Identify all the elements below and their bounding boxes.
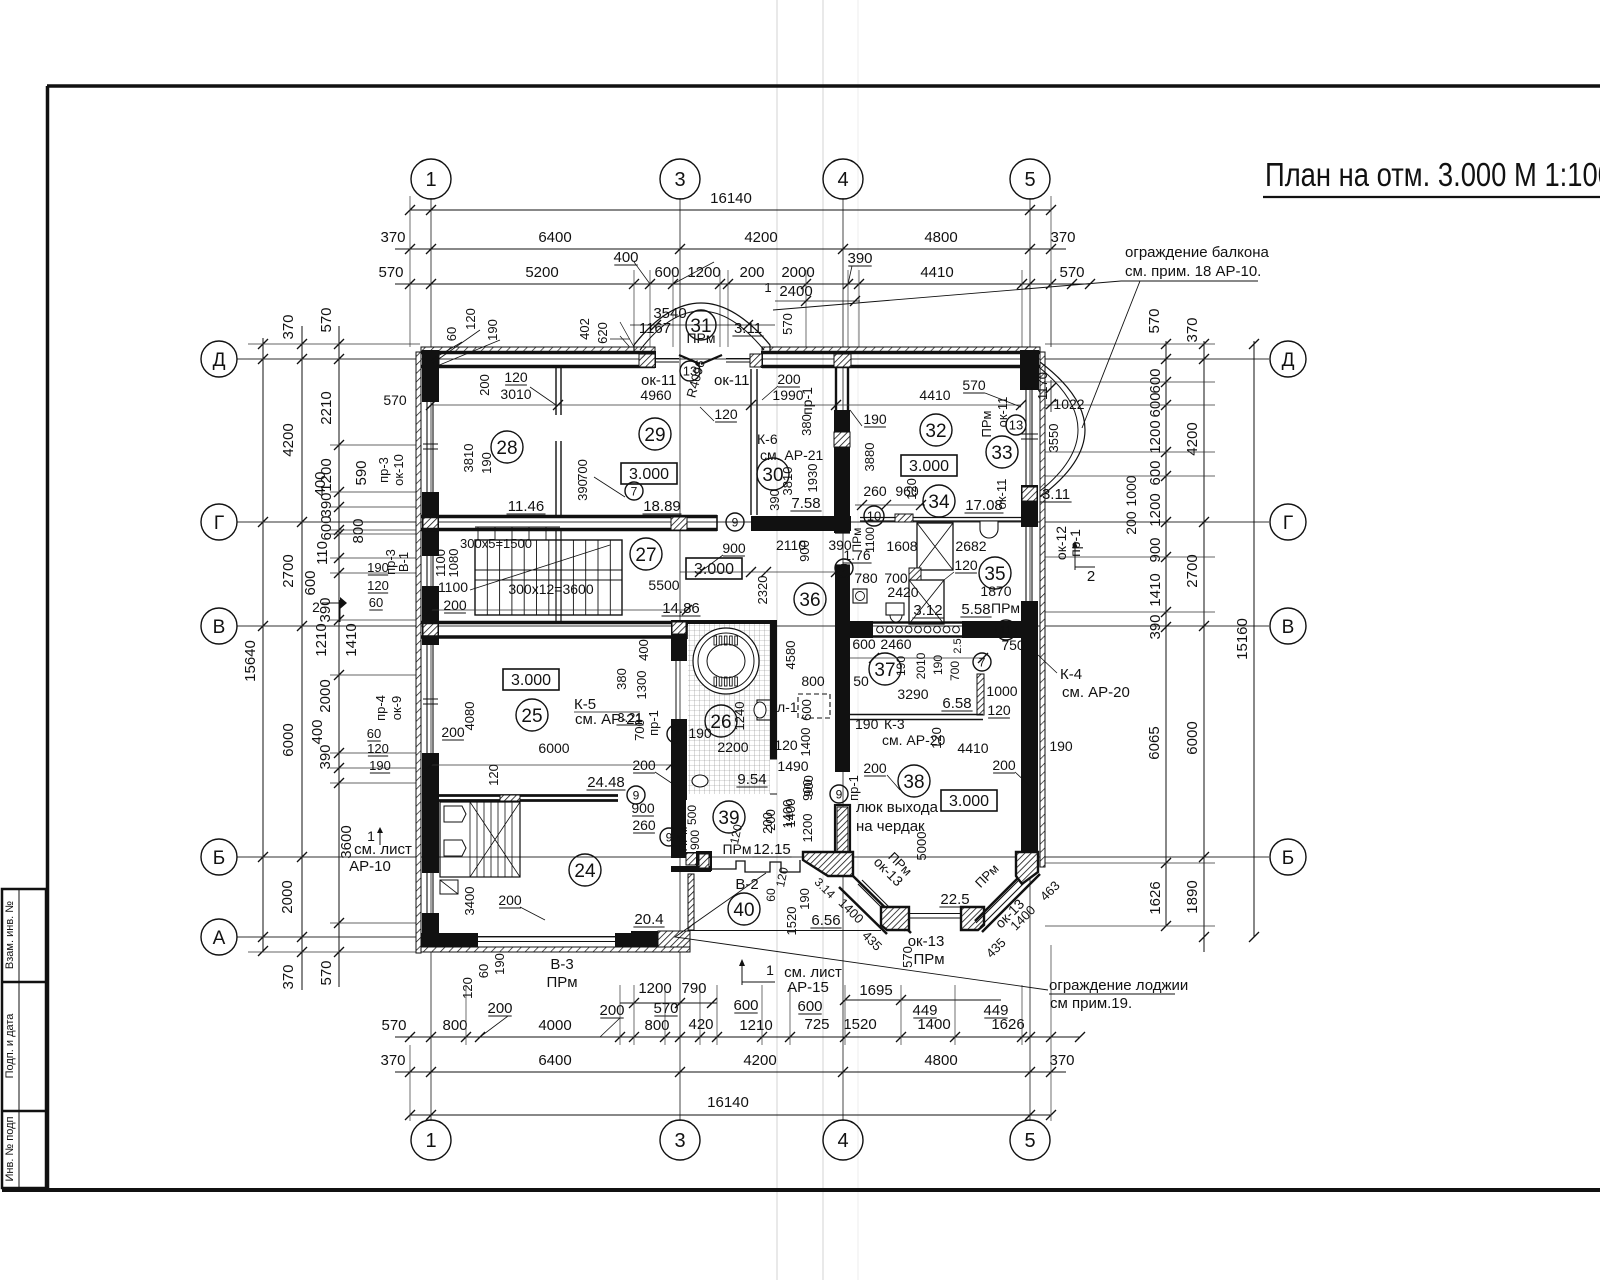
wall 36/37 axis4 [835, 565, 850, 772]
dashed hatch l-1 [798, 694, 830, 718]
svg-text:2.5: 2.5 [952, 638, 964, 653]
svg-text:110: 110 [314, 541, 331, 565]
door jamb 39/40 [697, 852, 711, 870]
svg-text:АР-15: АР-15 [787, 979, 829, 996]
svg-text:1490: 1490 [777, 758, 808, 774]
svg-text:3880: 3880 [862, 443, 877, 472]
pier at D/1 corner [423, 354, 439, 367]
svg-text:33: 33 [991, 443, 1012, 464]
svg-text:2200: 2200 [717, 739, 748, 755]
axis bubble 3 bottom [660, 1120, 700, 1160]
svg-text:5500: 5500 [648, 577, 679, 593]
svg-text:Б: Б [1282, 848, 1294, 869]
svg-text:5: 5 [1024, 169, 1035, 191]
svg-text:Д: Д [1282, 350, 1295, 371]
vestibule 31 balcony arc [634, 303, 770, 345]
svg-text:Г: Г [214, 513, 224, 534]
elev room 38 [941, 790, 997, 811]
svg-text:люк выхода: люк выхода [856, 799, 939, 816]
axis bubble D right [1270, 341, 1306, 377]
corner A wall to loggia [631, 931, 658, 947]
svg-text:1: 1 [764, 280, 771, 295]
left extension lines [248, 343, 420, 345]
room 32 [920, 414, 952, 446]
elev room 25 [503, 669, 559, 690]
room 37 inner partition [977, 674, 984, 715]
svg-text:ПРм: ПРм [546, 974, 577, 991]
axis line 5 [1029, 198, 1031, 1121]
svg-text:190: 190 [367, 560, 389, 575]
wall G mid part [751, 516, 851, 531]
corridor thin wall right of G [860, 517, 1021, 519]
svg-text:800: 800 [801, 673, 825, 689]
svg-text:50: 50 [853, 673, 869, 689]
svg-text:14.86: 14.86 [662, 600, 700, 617]
svg-text:700: 700 [575, 459, 590, 481]
room 30 [757, 458, 789, 490]
room 26 [705, 705, 737, 737]
svg-text:4: 4 [837, 1130, 848, 1152]
wall 26/36 [770, 624, 777, 759]
svg-text:4200: 4200 [744, 229, 777, 246]
svg-text:см. лист: см. лист [354, 841, 412, 858]
room 25 [516, 699, 548, 731]
svg-text:Инв. № подп: Инв. № подп [4, 1116, 16, 1181]
svg-text:6.56: 6.56 [811, 912, 840, 929]
left wall solid below ok-9 [422, 753, 439, 873]
A wall insulation hatch [421, 947, 690, 952]
svg-text:1100: 1100 [438, 579, 468, 595]
svg-text:5000: 5000 [914, 832, 929, 861]
svg-text:1200: 1200 [638, 980, 671, 997]
svg-text:200: 200 [863, 760, 887, 776]
svg-text:120: 120 [929, 727, 944, 749]
room 33 [986, 436, 1018, 468]
svg-text:15160: 15160 [1234, 618, 1251, 660]
svg-text:10: 10 [867, 509, 881, 524]
svg-text:3810: 3810 [461, 444, 476, 473]
mark 7 x982 [973, 653, 991, 671]
svg-text:24: 24 [574, 861, 596, 882]
svg-text:700: 700 [884, 570, 908, 586]
svg-text:3550: 3550 [1046, 424, 1061, 453]
jacuzzi tub [693, 628, 759, 694]
svg-text:Г: Г [1283, 513, 1293, 534]
top dim chain 16140 [410, 209, 1051, 211]
svg-text:4000: 4000 [538, 1017, 571, 1034]
svg-text:780: 780 [854, 570, 878, 586]
room 35 [979, 557, 1011, 589]
svg-text:3400: 3400 [462, 887, 477, 916]
svg-text:3.12: 3.12 [913, 602, 942, 619]
svg-text:900: 900 [631, 800, 655, 816]
svg-text:3.000: 3.000 [949, 793, 989, 810]
svg-text:Взам. инв. №: Взам. инв. № [4, 901, 16, 969]
svg-text:570: 570 [318, 307, 335, 332]
svg-text:1695: 1695 [859, 982, 892, 999]
svg-text:1: 1 [425, 169, 436, 191]
axis line 3 [679, 198, 681, 1121]
loggia slab edge [690, 930, 881, 932]
mark 7 bath [667, 725, 685, 743]
axis bubble 1 bottom [411, 1120, 451, 1160]
svg-text:3: 3 [674, 169, 685, 191]
svg-text:190: 190 [369, 758, 391, 773]
axis bubble G right [1270, 504, 1306, 540]
svg-text:1200: 1200 [800, 814, 815, 843]
vestibule 31 door opening sidelites [655, 358, 679, 360]
svg-text:4580: 4580 [783, 641, 798, 670]
svg-text:390: 390 [847, 250, 872, 267]
bottom dim chain axes spans [395, 1071, 1066, 1073]
bottom dim chain detail [395, 1036, 1080, 1038]
bedside table [440, 880, 458, 894]
svg-text:400: 400 [636, 639, 651, 661]
svg-text:ПРм: ПРм [991, 600, 1020, 616]
shaft hatch small [909, 568, 921, 580]
svg-text:9.54: 9.54 [737, 771, 766, 788]
svg-text:300х5=1500: 300х5=1500 [460, 536, 532, 551]
svg-text:2700: 2700 [280, 554, 297, 587]
pier at D x640 [639, 354, 655, 367]
svg-text:1240: 1240 [732, 702, 747, 731]
room 27 [630, 538, 662, 570]
svg-text:1200: 1200 [1147, 420, 1164, 453]
axis bubble 1 top [411, 159, 451, 199]
svg-text:2010: 2010 [914, 652, 928, 679]
svg-text:В-3: В-3 [550, 956, 573, 973]
svg-text:390: 390 [575, 479, 590, 501]
interior wall axis4 top [835, 368, 837, 430]
svg-text:200: 200 [477, 374, 492, 396]
top dim chain detail [395, 283, 1090, 285]
bay right pier [1016, 852, 1038, 884]
bottom dim chain 16140 [410, 1114, 1051, 1116]
svg-text:1022: 1022 [1053, 396, 1084, 412]
svg-text:200: 200 [632, 757, 656, 773]
left dim chain axes spans [301, 326, 303, 990]
svg-text:390: 390 [1147, 614, 1164, 639]
svg-text:200: 200 [487, 1000, 512, 1017]
vestibule dim line 3540 [630, 324, 775, 326]
svg-text:400: 400 [309, 719, 326, 744]
exterior wall A bottom [421, 933, 478, 947]
axis bubble 3 top [660, 159, 700, 199]
axis line B [237, 856, 1269, 858]
wall 25/26 [671, 620, 687, 661]
svg-text:16140: 16140 [710, 190, 752, 207]
svg-text:370: 370 [380, 229, 405, 246]
svg-text:7: 7 [631, 484, 638, 498]
svg-text:ПРм: ПРм [722, 841, 751, 857]
elev room 27 [686, 558, 742, 579]
svg-text:570: 570 [381, 1017, 406, 1034]
svg-text:1100: 1100 [863, 527, 877, 553]
svg-text:7: 7 [673, 727, 680, 741]
svg-text:900: 900 [1147, 537, 1164, 562]
svg-text:ограждение лоджии: ограждение лоджии [1049, 977, 1188, 994]
bottom extension lines [465, 985, 467, 1045]
vent shaft 2 [909, 580, 944, 624]
svg-text:К-4: К-4 [1060, 666, 1082, 683]
svg-text:570: 570 [318, 960, 335, 985]
left wall pier at A corner [422, 913, 439, 948]
svg-text:370: 370 [1050, 229, 1075, 246]
right extension lines [1045, 343, 1215, 345]
wall 24 right x671 [671, 780, 686, 852]
svg-text:900: 900 [797, 540, 812, 562]
axis bubble 4 top [823, 159, 863, 199]
room 31 [686, 310, 716, 340]
mark 7 room28 [625, 482, 643, 500]
svg-text:570: 570 [900, 946, 915, 968]
svg-text:Д: Д [213, 350, 226, 371]
svg-text:790: 790 [681, 980, 706, 997]
axis bubble A left [201, 919, 237, 955]
svg-text:1: 1 [766, 962, 774, 978]
svg-text:4410: 4410 [919, 387, 950, 403]
toilet p-1 bathroom [757, 700, 771, 720]
luk wall x835 [835, 805, 850, 857]
svg-text:12.15: 12.15 [753, 841, 791, 858]
right dim chain 15160 [1253, 341, 1255, 937]
svg-text:7.58: 7.58 [791, 495, 820, 512]
svg-text:190: 190 [688, 725, 712, 741]
svg-text:4410: 4410 [957, 740, 988, 756]
svg-text:6400: 6400 [538, 229, 571, 246]
svg-text:В: В [213, 617, 226, 638]
corridor 40 west wall [688, 874, 694, 930]
svg-text:40: 40 [733, 900, 754, 921]
svg-text:60: 60 [764, 888, 778, 902]
wall G left part [421, 515, 717, 518]
svg-text:2000: 2000 [317, 679, 334, 712]
svg-text:570: 570 [962, 377, 986, 393]
svg-text:пр-1: пр-1 [846, 775, 861, 801]
bathroom 26 tile floor [688, 624, 770, 794]
top dim chain axes spans [395, 248, 1066, 250]
axis line 1 [430, 198, 432, 1121]
room 38 [898, 765, 930, 797]
sink corridor 34 [980, 521, 998, 538]
svg-text:см прим.19.: см прим.19. [1050, 995, 1132, 1012]
svg-text:ок-10: ок-10 [391, 454, 406, 486]
svg-text:35: 35 [984, 564, 1005, 585]
svg-text:3.000: 3.000 [629, 466, 669, 483]
svg-text:120: 120 [987, 702, 1011, 718]
door 26/36 [770, 758, 777, 760]
svg-text:ок-11: ок-11 [714, 372, 749, 389]
left wall pier at G [422, 492, 439, 556]
svg-text:120: 120 [367, 578, 389, 593]
svg-text:1400: 1400 [783, 799, 798, 828]
axis bubble B right [1270, 839, 1306, 875]
elev room 29 [621, 463, 677, 484]
interior wall 29/30 [750, 369, 752, 515]
svg-text:590: 590 [353, 460, 370, 485]
window ok-11 right [1025, 387, 1027, 485]
room 40 [728, 893, 760, 925]
axis bubble V left [201, 608, 237, 644]
svg-text:120: 120 [504, 369, 528, 385]
axis line 4 [842, 198, 844, 1121]
washing machine room 35 [853, 589, 867, 603]
svg-text:260: 260 [863, 483, 887, 499]
svg-text:600: 600 [797, 998, 822, 1015]
svg-text:К-3: К-3 [884, 716, 905, 732]
svg-text:380: 380 [614, 668, 629, 690]
svg-text:900: 900 [722, 540, 746, 556]
svg-text:4200: 4200 [1184, 422, 1201, 455]
left wall pier at V [422, 586, 439, 645]
scan fold artifact lines [776, 0, 778, 1280]
svg-text:3.000: 3.000 [511, 672, 551, 689]
svg-text:120: 120 [904, 478, 919, 500]
svg-text:26: 26 [710, 712, 731, 733]
svg-text:2210: 2210 [318, 391, 335, 424]
svg-text:1870: 1870 [980, 583, 1011, 599]
svg-text:750: 750 [1001, 637, 1025, 653]
svg-text:200: 200 [739, 264, 764, 281]
svg-text:600: 600 [733, 997, 758, 1014]
mark 9 a [627, 786, 645, 804]
room 36 [794, 583, 826, 615]
svg-text:390: 390 [767, 489, 782, 511]
svg-text:36: 36 [799, 590, 820, 611]
svg-text:4200: 4200 [743, 1052, 776, 1069]
svg-text:900: 900 [801, 775, 816, 797]
svg-text:18.89: 18.89 [643, 498, 681, 515]
svg-text:22.5: 22.5 [940, 891, 969, 908]
axis bubble B left [201, 839, 237, 875]
svg-text:1410: 1410 [343, 623, 360, 656]
axis line D [237, 358, 1269, 360]
stairs [475, 540, 622, 615]
svg-text:2400: 2400 [779, 283, 812, 300]
left dim chain detail [338, 326, 340, 987]
door jamb 36 [835, 532, 850, 534]
svg-text:1400: 1400 [798, 728, 813, 757]
svg-text:402: 402 [577, 318, 592, 340]
svg-text:60: 60 [369, 595, 383, 610]
svg-text:1608: 1608 [886, 538, 917, 554]
svg-text:190: 190 [931, 655, 945, 675]
svg-text:2700: 2700 [1184, 554, 1201, 587]
svg-text:1300: 1300 [634, 671, 649, 700]
svg-text:570: 570 [780, 313, 795, 335]
svg-text:К-6: К-6 [757, 431, 778, 447]
bay left diagonal wall [852, 875, 911, 933]
svg-text:1520: 1520 [784, 907, 799, 936]
svg-text:2: 2 [1087, 568, 1095, 585]
svg-text:см. АР-20: см. АР-20 [1062, 684, 1130, 701]
svg-text:1410: 1410 [1147, 573, 1164, 606]
dim line 5500 [431, 609, 687, 611]
svg-text:200: 200 [599, 1002, 624, 1019]
svg-text:390: 390 [318, 492, 335, 517]
right balcony arc [1040, 362, 1085, 497]
svg-text:380: 380 [799, 414, 814, 436]
svg-text:260: 260 [632, 817, 656, 833]
axis line V [237, 625, 1269, 627]
svg-text:449: 449 [983, 1002, 1008, 1019]
svg-text:200: 200 [777, 371, 801, 387]
svg-text:ок-11: ок-11 [641, 372, 676, 389]
svg-text:План на отм. 3.000 М 1:100: План на отм. 3.000 М 1:100 [1265, 156, 1600, 193]
svg-text:390: 390 [828, 537, 852, 553]
svg-text:1930: 1930 [805, 464, 820, 493]
svg-text:29: 29 [644, 425, 665, 446]
room 24 [569, 854, 601, 886]
svg-text:570: 570 [378, 264, 403, 281]
svg-text:2682: 2682 [955, 538, 986, 554]
svg-text:пр-4: пр-4 [373, 695, 388, 721]
exterior wall right x5 [1040, 352, 1045, 867]
bathroom 26 top wall [687, 620, 777, 625]
axis bubble G left [201, 504, 237, 540]
axis line A [237, 936, 690, 938]
svg-text:570: 570 [653, 1000, 678, 1017]
svg-text:190: 190 [797, 888, 812, 910]
svg-text:4800: 4800 [924, 1052, 957, 1069]
toilet room 35 [886, 603, 904, 615]
svg-text:500: 500 [685, 805, 699, 825]
pier at D x750 [750, 354, 762, 367]
svg-text:120: 120 [774, 737, 798, 753]
window V-3 [478, 936, 615, 938]
svg-text:449: 449 [912, 1002, 937, 1019]
svg-text:370: 370 [1184, 317, 1201, 342]
svg-text:600: 600 [1147, 368, 1164, 393]
svg-text:25: 25 [521, 706, 542, 727]
svg-text:3.000: 3.000 [694, 561, 734, 578]
right dim chain detail [1165, 341, 1167, 926]
svg-text:1080: 1080 [446, 549, 461, 578]
svg-text:6000: 6000 [538, 740, 569, 756]
elev room 32 [901, 455, 957, 476]
door mark circle 13 vestibule [680, 361, 700, 381]
svg-text:370: 370 [1049, 1052, 1074, 1069]
svg-text:5200: 5200 [525, 264, 558, 281]
svg-text:1890: 1890 [1184, 880, 1201, 913]
svg-text:570: 570 [1059, 264, 1084, 281]
svg-text:190: 190 [1049, 738, 1073, 754]
svg-text:600: 600 [654, 264, 679, 281]
svg-text:6000: 6000 [1184, 721, 1201, 754]
exterior wall top along D right part [762, 351, 1040, 355]
svg-text:В: В [1282, 617, 1295, 638]
mark 9 b [660, 828, 678, 846]
window ok-10 [426, 401, 428, 492]
svg-text:300х12=3600: 300х12=3600 [508, 581, 593, 597]
top extension lines [633, 270, 635, 347]
exterior wall top along D left part [421, 351, 655, 355]
window ok-12 [1025, 527, 1027, 601]
svg-text:3600: 3600 [338, 825, 355, 858]
svg-text:1626: 1626 [1147, 881, 1164, 914]
svg-text:13: 13 [1009, 418, 1023, 433]
svg-text:2460: 2460 [880, 636, 911, 652]
svg-text:1000: 1000 [986, 683, 1017, 699]
svg-text:3.11: 3.11 [1042, 486, 1070, 503]
svg-text:ограждение балкона: ограждение балкона [1125, 244, 1269, 261]
exterior wall left: insulation hatch [416, 352, 421, 953]
room 29 [639, 418, 671, 450]
axis bubble D left [201, 341, 237, 377]
svg-text:Б: Б [213, 848, 225, 869]
svg-text:А: А [213, 928, 226, 949]
svg-text:15640: 15640 [242, 640, 259, 682]
